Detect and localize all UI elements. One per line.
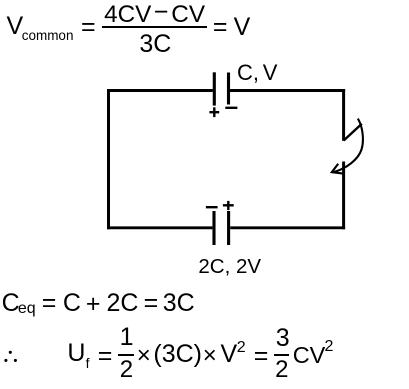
capacitor C2 left plate xyxy=(212,211,215,245)
equals sign xyxy=(213,15,228,40)
label 2C, 2V for bottom capacitor xyxy=(198,257,261,278)
minus sign bottom capacitor xyxy=(206,206,218,208)
wire right side lower xyxy=(342,162,345,230)
fraction 1/2 xyxy=(120,325,134,350)
wire top left segment xyxy=(107,89,213,92)
minus sign top capacitor xyxy=(225,107,237,109)
therefore symbol dots xyxy=(4,351,17,362)
result V xyxy=(234,15,251,40)
wire top right segment xyxy=(230,89,345,92)
label C, V for top capacitor xyxy=(237,62,259,84)
fraction 3/2 xyxy=(276,326,290,351)
equation line 4: therefore Uf = 1/2 x (3C) x V^2 = 3/2 CV^2 xyxy=(67,341,85,366)
equals sign xyxy=(81,15,96,40)
term V_common xyxy=(7,14,24,39)
switch blade xyxy=(344,124,362,141)
capacitor C1 right plate xyxy=(227,73,230,105)
switch arrow arc xyxy=(333,119,363,173)
capacitor C1 left plate xyxy=(213,72,216,105)
capacitor C2 right plate xyxy=(227,211,230,245)
denominator 3C xyxy=(139,32,171,57)
numerator 4CV - CV xyxy=(104,3,151,27)
fraction bar xyxy=(102,26,206,28)
times xyxy=(137,344,151,368)
wire bottom right segment xyxy=(230,226,345,229)
wire right side upper xyxy=(342,89,345,141)
wire bottom left segment xyxy=(107,226,212,229)
switch arrowhead xyxy=(332,164,343,174)
plus sign bottom capacitor xyxy=(223,204,234,206)
wire left side xyxy=(107,89,110,229)
plus sign top capacitor xyxy=(209,111,219,113)
equation line 3: Ceq = C + 2C = 3C xyxy=(2,291,20,316)
